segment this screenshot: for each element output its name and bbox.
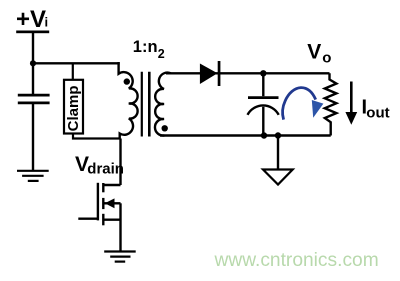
secondary phase dot (162, 125, 168, 131)
wire top rail secondary to resistor (166, 72, 330, 74)
svg-text:2: 2 (158, 47, 165, 61)
clamp block (64, 80, 83, 134)
node dot bottom rail ground (275, 132, 281, 138)
svg-text:1:n: 1:n (133, 38, 158, 56)
source horizontal (103, 218, 120, 220)
svg-text:+V: +V (16, 6, 46, 33)
drain horizontal (103, 184, 120, 186)
ground (MOSFET source) (104, 252, 136, 262)
node junction dot at Vi (30, 60, 36, 66)
wire to output ground (277, 136, 279, 169)
ground (output, open triangle) (263, 170, 293, 185)
label 1:n2 (133, 38, 165, 61)
node dot bottom rail cap (261, 132, 267, 138)
MOSFET Q1 (78, 183, 120, 251)
wire bottom rail (160, 134, 331, 136)
wire top rail to clamp (72, 63, 74, 80)
wire Vi bar to junction and capacitor (32, 33, 34, 95)
wire top rail to transformer primary (33, 62, 120, 64)
wire transformer/clamp node to MOSFET drain (119, 139, 121, 186)
wire capacitor to ground (32, 104, 34, 171)
svg-text:www.cntronics.com: www.cntronics.com (214, 250, 379, 271)
svg-text:V: V (307, 40, 321, 63)
gate lead (78, 217, 98, 219)
diode D1 (200, 64, 218, 85)
label Iout (362, 97, 390, 122)
transformer secondary winding (155, 73, 171, 136)
capacitor Cin plate 1 (18, 94, 50, 97)
resistor Rload (325, 73, 337, 135)
transformer core (141, 72, 143, 137)
capacitor Cin plate 2 (18, 102, 50, 105)
label +Vi (16, 6, 48, 33)
channel dashes (102, 183, 104, 192)
svg-text:drain: drain (87, 161, 124, 178)
source vertical (119, 203, 121, 251)
svg-text:out: out (366, 105, 389, 122)
primary phase dot (124, 78, 130, 84)
MOSFET body arrow (105, 198, 115, 208)
ground (left) (17, 171, 49, 181)
capacitor Cout curved plate (248, 105, 279, 114)
label Vo (307, 40, 331, 66)
Iout arrow (350, 82, 353, 115)
svg-text:Clamp: Clamp (65, 85, 82, 131)
wire clamp bottom (73, 134, 121, 139)
svg-text:o: o (322, 50, 331, 67)
svg-text:i: i (45, 14, 49, 29)
gate line (97, 183, 99, 221)
node dot top rail at output cap (260, 70, 266, 76)
body line (105, 202, 121, 204)
label Vdrain (75, 153, 124, 178)
blue current loop arrow (283, 88, 316, 120)
Vi terminal bar (16, 31, 49, 34)
wire Cout to bottom rail (262, 107, 264, 136)
wire to output capacitor (262, 73, 264, 96)
capacitor Cout plate 1 (248, 96, 279, 99)
transformer primary winding (119, 62, 138, 139)
